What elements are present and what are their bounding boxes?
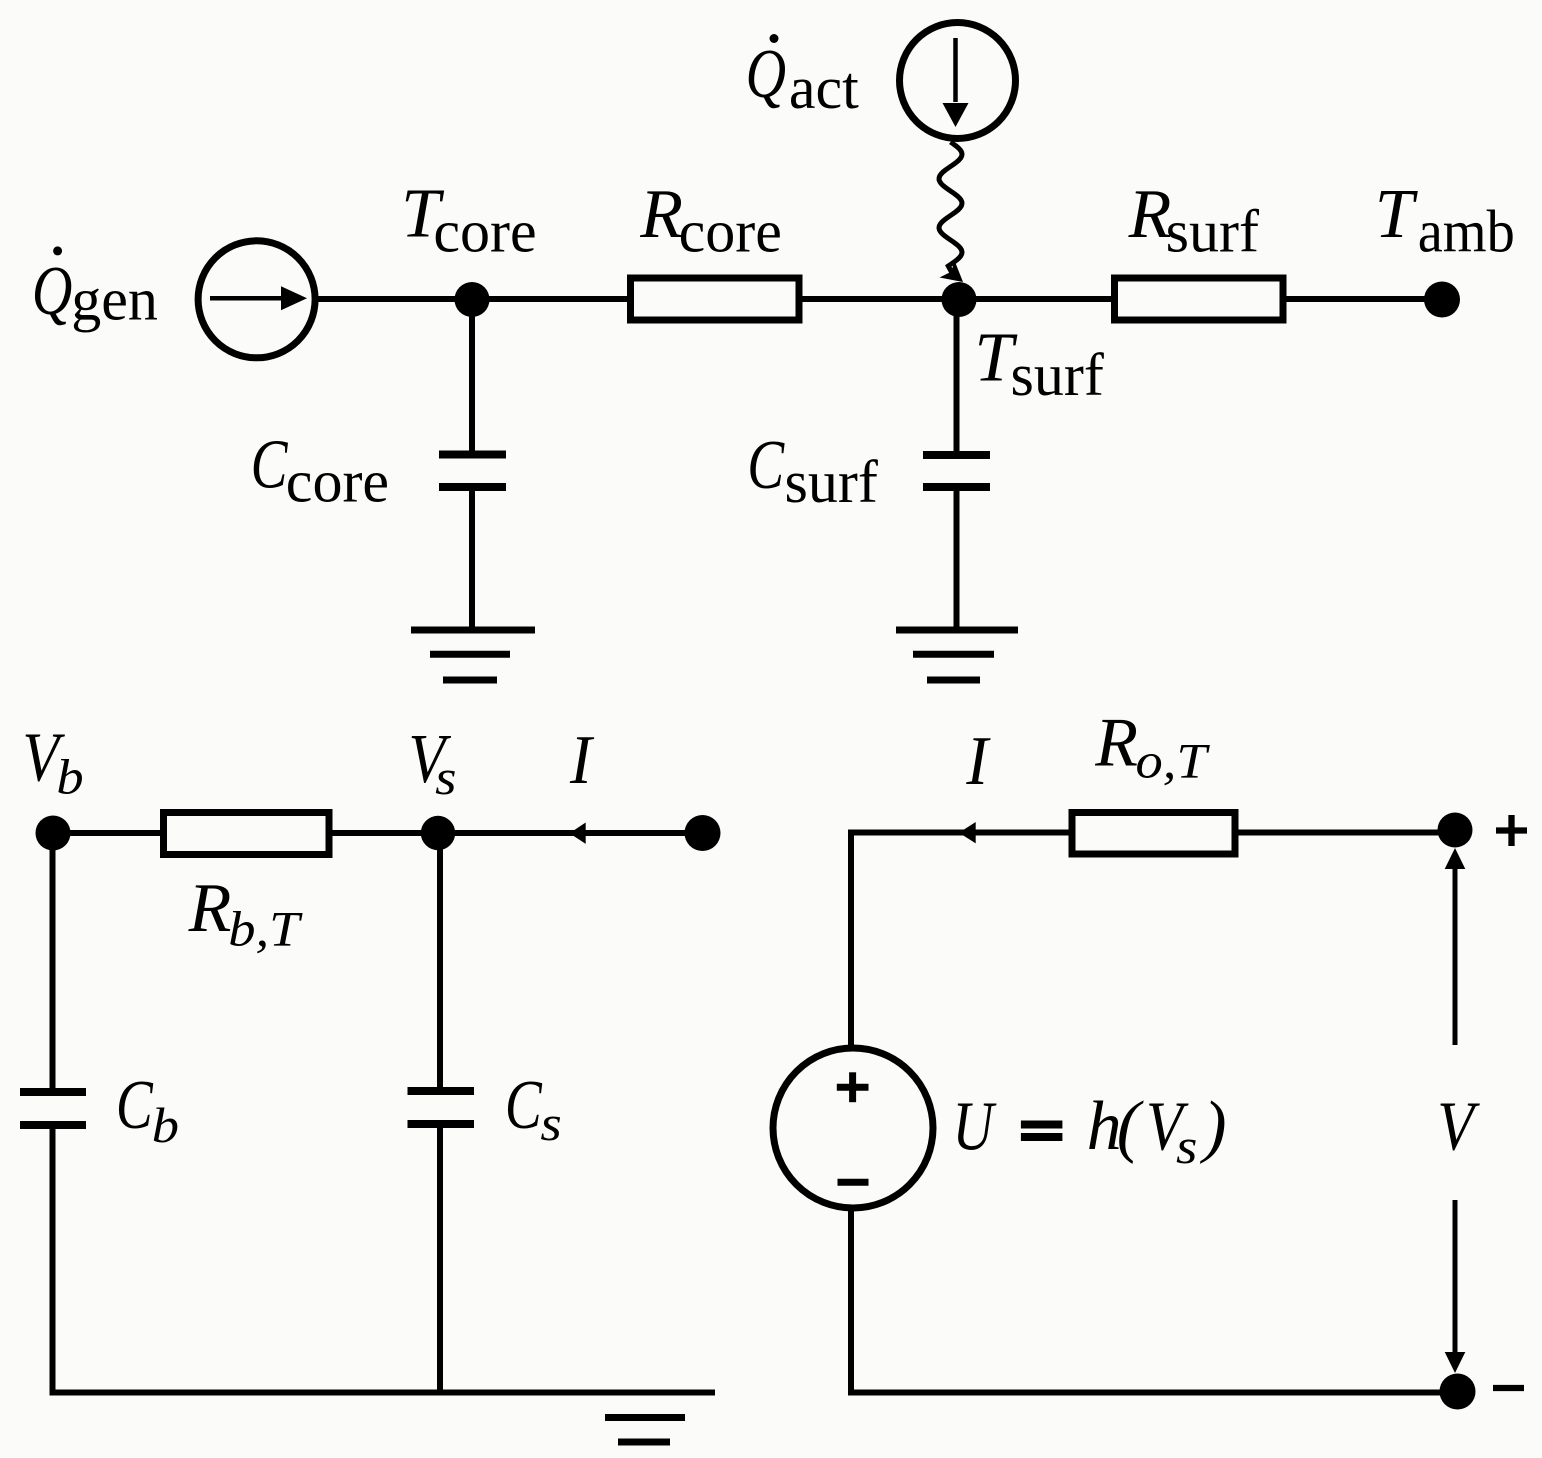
label Cb: [116, 1066, 179, 1154]
label Tamb: [1375, 176, 1515, 265]
capacitor Csurf: [923, 455, 990, 487]
wire Ccore to ground: [469, 489, 475, 630]
svg-text:Q: Q: [746, 35, 786, 112]
plus terminal sign: [1496, 815, 1527, 846]
node minus (right circuit): [1440, 1374, 1476, 1410]
svg-text:T: T: [1375, 176, 1419, 253]
svg-text:I: I: [965, 722, 991, 800]
minus terminal sign: [1493, 1385, 1524, 1391]
label RbT: [188, 870, 304, 957]
svg-text:C: C: [747, 426, 785, 504]
label Tcore: [401, 176, 537, 265]
svg-text:b,T: b,T: [228, 902, 303, 957]
current source Qact: [900, 23, 1016, 139]
svg-text:gen: gen: [71, 267, 158, 333]
svg-text:C: C: [116, 1066, 154, 1144]
resistor Rsurf: [1115, 278, 1284, 320]
wire Vb down to Cb: [50, 833, 56, 1088]
resistor Rcore: [631, 278, 800, 320]
node Vs: [421, 816, 455, 850]
svg-text:C: C: [251, 425, 289, 503]
svg-text:core: core: [286, 449, 389, 515]
label Qgen: [32, 246, 158, 332]
current source Qgen: [198, 241, 315, 358]
label Csurf: [747, 426, 878, 515]
capacitor Ccore: [439, 455, 506, 488]
wire Rsurf to Tamb: [1283, 296, 1442, 302]
svg-text:C: C: [505, 1066, 543, 1144]
capacitor Cs: [408, 1091, 475, 1124]
svg-text:surf: surf: [785, 449, 878, 515]
voltage source U: [773, 1048, 933, 1208]
svg-text:surf: surf: [1011, 342, 1104, 408]
wire Qgen to Rcore: [315, 296, 632, 302]
svg-text:s: s: [540, 1096, 561, 1151]
svg-text:): ): [1199, 1088, 1226, 1165]
node plus (right circuit): [1438, 813, 1473, 848]
wire Vb to RbT: [53, 830, 167, 836]
resistor RbT: [164, 813, 330, 855]
svg-text:b: b: [56, 749, 83, 804]
label Tsurf: [974, 320, 1103, 408]
svg-text:amb: amb: [1418, 198, 1515, 265]
label Vb: [22, 719, 83, 804]
wire with current arrow I into Vs: [438, 823, 702, 844]
label Vs: [408, 721, 456, 806]
label Qact: [746, 34, 860, 121]
wire Rcore to Rsurf: [799, 296, 1114, 302]
label RoT: [1094, 704, 1211, 789]
wire RbT to Vs: [326, 830, 438, 836]
label Rcore: [639, 176, 782, 265]
label Ccore: [251, 425, 389, 514]
node Tsurf: [942, 282, 977, 317]
ground under Ccore: [411, 630, 535, 680]
wire RoT to plus node: [1238, 830, 1455, 836]
capacitor Cb: [20, 1092, 86, 1125]
node Tcore: [455, 282, 490, 317]
bottom rail (left circuit): [50, 1390, 716, 1396]
wavy arrow Qact to Tsurf: [939, 142, 963, 282]
svg-text:act: act: [789, 55, 859, 121]
wire U down to bottom rail (right circuit): [848, 1208, 854, 1395]
wire Tsurf down to Csurf: [954, 299, 960, 452]
label Rsurf: [1128, 176, 1259, 265]
label Cs: [505, 1066, 562, 1152]
node right end (left circuit): [685, 815, 721, 851]
label U = h(Vs): [952, 1087, 1226, 1175]
svg-text:o,T: o,T: [1135, 734, 1210, 789]
svg-text:R: R: [1094, 704, 1138, 781]
svg-text:I: I: [569, 721, 595, 799]
ground (left circuit): [605, 1418, 685, 1443]
resistor RoT: [1072, 813, 1235, 855]
svg-text:s: s: [435, 750, 456, 805]
svg-text:(: (: [1117, 1088, 1144, 1165]
node Vb: [36, 816, 71, 851]
top rail with current arrow I (right circuit): [848, 822, 1075, 843]
svg-text:U: U: [952, 1087, 997, 1165]
svg-text:b: b: [152, 1098, 179, 1153]
svg-text:R: R: [188, 870, 232, 947]
wire Cb to bottom rail: [50, 1127, 56, 1395]
wire Csurf to ground: [954, 489, 960, 630]
bottom rail (right circuit): [848, 1390, 1457, 1396]
voltage arrow V: [1445, 848, 1466, 1373]
svg-text:s: s: [1176, 1119, 1197, 1174]
node Tamb: [1424, 282, 1460, 318]
wire Tcore down to Ccore: [469, 299, 475, 451]
svg-text:R: R: [639, 176, 683, 253]
svg-text:surf: surf: [1166, 199, 1259, 265]
wire Cs to bottom rail: [437, 1126, 443, 1392]
svg-text:core: core: [679, 199, 782, 265]
svg-text:Q: Q: [32, 252, 72, 329]
ground under Csurf: [896, 630, 1018, 680]
wire U up to top rail corner: [848, 830, 854, 1049]
svg-text:core: core: [433, 199, 536, 265]
wire Vs down to Cs: [437, 833, 443, 1088]
